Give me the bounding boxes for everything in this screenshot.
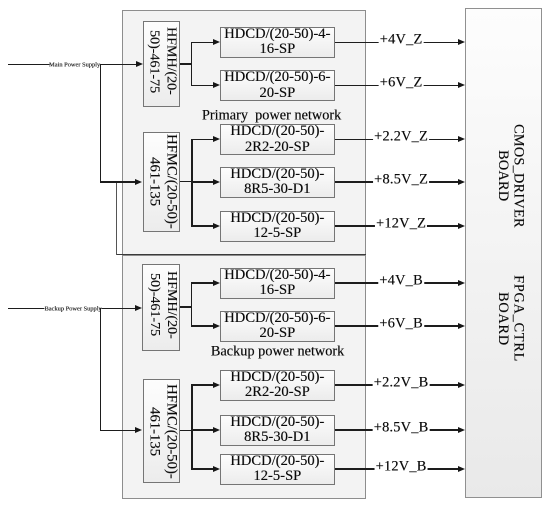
arrow into R5	[213, 223, 220, 229]
arrow R6 to board	[458, 280, 465, 286]
wire R9 to board	[335, 429, 459, 431]
net label +6V_B	[378, 316, 424, 331]
arrow R2 to board	[458, 82, 465, 88]
wire to R8	[191, 384, 213, 386]
wire to R9	[191, 429, 213, 431]
wire R3 to board	[335, 139, 459, 141]
wire R2 to board	[335, 85, 459, 87]
wire HFMC backup output	[180, 430, 193, 432]
arrow into R10	[213, 466, 220, 472]
wire HFMH backup output	[180, 306, 192, 308]
wire R8 to board	[335, 384, 459, 386]
label FPGA ctrl board	[494, 264, 526, 374]
net label +12V_Z	[375, 216, 427, 231]
wire to R5	[191, 225, 213, 227]
wire to R10	[191, 468, 213, 470]
wire R6 to board	[335, 282, 459, 284]
converter HFMH primary U1	[143, 21, 180, 107]
arrow into HFMC primary	[135, 179, 142, 185]
arrow R8 to board	[458, 382, 465, 388]
wire to R1	[191, 42, 213, 44]
regulator R4 box	[220, 167, 335, 198]
wire into HFMC backup	[100, 430, 137, 432]
wire to R7	[191, 325, 213, 327]
arrow R10 to board	[458, 466, 465, 472]
wire R10 to board	[335, 468, 459, 470]
regulator R2 box	[220, 70, 335, 101]
label main power supply	[49, 61, 100, 69]
arrow into HFMH primary	[136, 61, 143, 67]
arrow into R8	[213, 382, 220, 388]
arrow into R6	[213, 280, 220, 286]
wire HFMH primary output	[180, 63, 193, 65]
arrow R5 to board	[458, 223, 465, 229]
net label +8.5V_Z	[373, 172, 429, 187]
CMOS/FPGA board box U3	[465, 8, 542, 498]
wire backup power supply	[8, 308, 136, 310]
wire branch HFMH backup	[191, 282, 193, 326]
wire branch backup down	[100, 308, 102, 431]
regulator R6 box	[220, 268, 335, 299]
primary network enclosure box	[122, 10, 366, 255]
wire R7 to board	[335, 325, 459, 327]
arrow into R2	[213, 82, 220, 88]
net label +6V_Z	[379, 76, 424, 91]
arrow R1 to board	[458, 39, 465, 45]
wire branch HFMH primary	[191, 42, 193, 87]
arrow into R1	[213, 39, 220, 45]
regulator R3 box	[220, 124, 335, 155]
regulator R8 box	[220, 370, 335, 401]
wire to R4	[191, 181, 213, 183]
wire to R3	[191, 139, 213, 141]
label HFMH primary	[143, 18, 180, 104]
regulator R1 box	[220, 27, 335, 58]
net label +4V_B	[378, 273, 424, 288]
arrow R3 to board	[458, 136, 465, 142]
label HFMH backup	[142, 261, 180, 348]
arrow R7 to board	[458, 323, 465, 329]
backup network enclosure box	[122, 255, 366, 499]
wire R1 to board	[335, 42, 459, 44]
label HFMC backup	[143, 379, 180, 483]
arrow into HFMC backup	[135, 427, 142, 433]
arrow R9 to board	[458, 427, 465, 433]
label primary section	[202, 107, 341, 124]
arrow R4 to board	[458, 179, 465, 185]
converter HFMH backup U4	[142, 264, 180, 351]
arrow into HFMH backup	[135, 305, 142, 311]
hook wire left of enclosures	[116, 182, 117, 255]
wire R4 to board	[335, 181, 459, 183]
net label +12V_B	[375, 459, 428, 474]
regulator R5 box	[220, 211, 335, 242]
regulator R7 box	[220, 311, 335, 342]
wire HFMC primary output	[180, 181, 193, 183]
regulator R9 box	[220, 415, 335, 446]
wire R5 to board	[335, 225, 459, 227]
net label +8.5V_B	[373, 420, 430, 435]
net label +2.2V_B	[373, 375, 430, 390]
divider wire between primary and backup enclosures	[116, 254, 366, 256]
net label +4V_Z	[379, 33, 424, 48]
wire to R6	[191, 282, 213, 284]
regulator R10 box	[220, 454, 335, 485]
label backup section	[211, 344, 344, 361]
arrow into R4	[213, 179, 220, 185]
wire to R2	[191, 85, 213, 87]
arrow into R9	[213, 427, 220, 433]
converter HFMC backup U5	[143, 379, 180, 483]
arrow into R7	[213, 323, 220, 329]
converter HFMC primary U2	[143, 132, 180, 232]
wire into HFMC primary	[100, 181, 137, 183]
label HFMC primary	[143, 132, 180, 232]
label CMOS driver board	[494, 121, 526, 231]
wire main power supply	[8, 64, 137, 66]
label backup power supply	[44, 305, 101, 313]
arrow into R3	[213, 136, 220, 142]
wire branch main down	[100, 64, 102, 182]
wire branch HFMC primary	[191, 139, 193, 227]
wire branch HFMC backup	[191, 384, 193, 469]
net label +2.2V_Z	[373, 130, 429, 145]
